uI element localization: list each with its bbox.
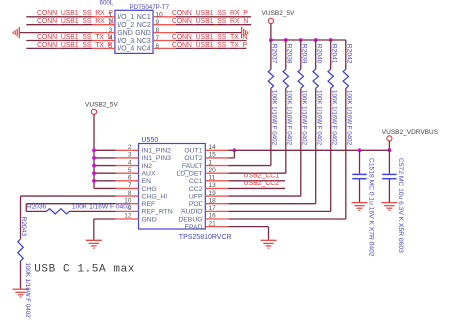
wire R2036 left (26, 210, 46, 212)
svg-text:1: 1 (209, 159, 213, 166)
earth ground (left of choke) (13, 27, 19, 38)
common-mode choke body PDT5047P (115, 10, 153, 53)
capacitor C572 plates (382, 174, 396, 178)
wire R2036 right (69, 210, 115, 212)
wire R2042 bottom (345, 88, 347, 219)
U550 pin 18 stub (205, 203, 228, 205)
pin 4 stub (92, 40, 115, 42)
wire net CONN_USB1_SS_RX_P (right) (176, 16, 251, 18)
svg-text:USB C 1.5A max: USB C 1.5A max (34, 264, 135, 276)
svg-text:600L: 600L (100, 0, 114, 6)
svg-text:R2039: R2039 (301, 44, 308, 64)
U550 pin 8 stub (116, 195, 139, 197)
svg-text:7: 7 (156, 35, 160, 42)
svg-text:CONN_USB1_SS_TX_N: CONN_USB1_SS_TX_N (172, 34, 248, 41)
svg-text:USB2_CC2: USB2_CC2 (244, 180, 280, 187)
pin 10 stub (153, 16, 176, 18)
svg-text:IN1_PIN3: IN1_PIN3 (142, 155, 172, 162)
svg-text:C572 MC 10u 6.3V K X5R 0603: C572 MC 10u 6.3V K X5R 0603 (397, 158, 404, 253)
capacitor C1518 plates (352, 174, 366, 178)
svg-text:CONN_USB1_SS_TX_P: CONN_USB1_SS_TX_P (37, 42, 113, 49)
svg-text:IN1_PIN2: IN1_PIN2 (142, 148, 172, 155)
wire R2039 bottom (300, 88, 302, 196)
wire AUDIO to R2041 (228, 210, 330, 212)
wire R2040 bottom (315, 88, 317, 203)
svg-text:6: 6 (156, 43, 160, 50)
wire EPAD (228, 226, 268, 228)
U550 pin 14 stub (205, 149, 228, 151)
wire R2038 bottom (285, 88, 287, 173)
svg-text:LD_DET: LD_DET (176, 170, 202, 177)
U550 pin 17 stub (205, 210, 228, 212)
U550 pin 6 stub (116, 180, 139, 182)
pin 6 stub (153, 47, 176, 49)
svg-text:AUDIO: AUDIO (181, 209, 203, 216)
svg-text:15: 15 (209, 152, 217, 159)
wire OUT2 stub (228, 157, 234, 159)
pin 5 stub (92, 47, 115, 49)
wire POL to R2040 (228, 203, 315, 205)
junction VDRVBUS (388, 148, 392, 152)
wire REF down to R2036 (25, 204, 27, 212)
svg-text:GND: GND (142, 216, 157, 223)
wire R2038 top (285, 40, 287, 69)
svg-text:18: 18 (209, 197, 217, 204)
resistor R2039 (298, 69, 303, 88)
svg-text:19: 19 (209, 190, 217, 197)
svg-text:100K 1/16W F 0402: 100K 1/16W F 0402 (316, 90, 323, 146)
svg-text:16: 16 (209, 213, 217, 220)
wire DEBUG to R2042 (228, 218, 345, 220)
svg-text:10: 10 (156, 11, 164, 18)
svg-text:AUX: AUX (142, 170, 156, 177)
wire R2041 bottom (330, 88, 332, 211)
svg-text:8: 8 (156, 27, 160, 34)
svg-text:CC2: CC2 (189, 186, 203, 193)
svg-text:GND: GND (135, 30, 151, 37)
resistor R2042 (343, 69, 348, 88)
U550 pin 10 stub (116, 203, 139, 205)
svg-text:5: 5 (128, 167, 132, 174)
wire net CONN_USB1_SS_TX_P (left) (26, 47, 92, 49)
svg-text:I/O_2: I/O_2 (117, 22, 134, 29)
svg-text:14: 14 (209, 144, 217, 151)
svg-text:NC3: NC3 (137, 38, 151, 45)
svg-text:R2042: R2042 (346, 44, 353, 64)
svg-text:CHG: CHG (142, 186, 157, 193)
U550 pin 12 stub (116, 218, 139, 220)
wire 5V to pin 5 (94, 172, 116, 174)
svg-text:OUT2: OUT2 (184, 155, 202, 162)
power symbol VUSB2_VDRVBUS (387, 136, 392, 141)
U550 pin 1 stub (205, 165, 228, 167)
svg-text:100K 1/16W F 0402: 100K 1/16W F 0402 (301, 90, 308, 146)
U550 pin 2 stub (116, 149, 139, 151)
svg-text:VUSB2_VDRVBUS: VUSB2_VDRVBUS (382, 129, 439, 136)
wire C1518 bottom (359, 180, 361, 203)
svg-text:NC1: NC1 (137, 14, 151, 21)
svg-text:VUSB2_5V: VUSB2_5V (262, 10, 296, 17)
wire C1518 top (359, 150, 361, 173)
junction 5V rail row 3 (92, 156, 96, 160)
svg-text:NC2: NC2 (137, 22, 151, 29)
U550 pin 11 stub (205, 180, 228, 182)
svg-text:20: 20 (209, 167, 217, 174)
svg-text:CHG_HI: CHG_HI (142, 193, 168, 200)
wire net CONN_USB1_SS_RX_P (left) (26, 16, 92, 18)
U550 pin 20 stub (205, 172, 228, 174)
wire UFP to R2039 (228, 195, 300, 197)
svg-text:TPS25810RVCR: TPS25810RVCR (179, 234, 232, 241)
U550 pin 4 stub (116, 165, 139, 167)
svg-text:100K 1/16W F 0402: 100K 1/16W F 0402 (346, 90, 353, 146)
svg-text:CONN_USB1_SS_RX_N: CONN_USB1_SS_RX_N (172, 18, 248, 25)
resistor R2036 (47, 209, 70, 214)
pin 7 stub (153, 40, 176, 42)
wire gnd row 3 (left) (19, 32, 92, 34)
wire LD_DET to R2038 (228, 172, 285, 174)
U550 pin 3 stub (116, 157, 139, 159)
svg-text:CC1: CC1 (189, 178, 203, 185)
junction 5V rail row 2 (92, 148, 96, 152)
ground under C572 (381, 203, 397, 211)
wire net CONN_USB1_SS_TX_P (right) (176, 47, 247, 49)
wire R2037 bottom (270, 88, 272, 165)
svg-text:CONN_USB1_SS_RX_P: CONN_USB1_SS_RX_P (172, 10, 248, 17)
svg-text:R2037: R2037 (271, 44, 278, 64)
resistor R2041 (328, 69, 333, 88)
wire R2039 top (300, 40, 302, 69)
wire CHG_HI row (21, 195, 116, 197)
svg-text:9: 9 (156, 19, 160, 26)
svg-text:EN: EN (142, 178, 152, 185)
svg-text:7: 7 (128, 182, 132, 189)
svg-text:CONN_USB1_SS_TX_P: CONN_USB1_SS_TX_P (172, 42, 248, 49)
svg-text:R2038: R2038 (286, 44, 293, 64)
U550 pin 7 stub (116, 187, 139, 189)
U550 pin 15 stub (205, 157, 228, 159)
ground under pin 12 (86, 240, 102, 248)
svg-text:4: 4 (128, 159, 132, 166)
resistor R2043 (18, 239, 23, 261)
svg-text:21: 21 (209, 220, 217, 227)
wire CC1 stub (228, 180, 285, 182)
U550 pin 19 stub (205, 195, 228, 197)
svg-text:NC4: NC4 (137, 46, 151, 53)
resistor R2037 (268, 69, 273, 88)
wire 5V to pin 2 (94, 149, 116, 151)
svg-text:I/O_4: I/O_4 (117, 46, 134, 53)
junction on 5V rail at R2039 (299, 38, 303, 42)
svg-text:I/O_3: I/O_3 (117, 38, 134, 45)
wire VDRVBUS down to rail (388, 141, 390, 150)
svg-text:13: 13 (209, 182, 217, 189)
svg-text:POL: POL (189, 201, 203, 208)
svg-text:GND: GND (117, 30, 133, 37)
junction OUT2 join (233, 148, 237, 152)
U550 pin 16 stub (205, 218, 228, 220)
wire 5V to pin 6 (94, 180, 116, 182)
svg-text:8: 8 (128, 190, 132, 197)
svg-text:IN2: IN2 (142, 163, 153, 170)
wire down to R2043 (20, 196, 22, 239)
ground under C1518 (352, 203, 368, 211)
pin 9 stub (153, 24, 176, 26)
wire 5V to pin 7 (CHG) (94, 187, 116, 189)
junction 5V rail row 6 (92, 179, 96, 183)
junction on 5V rail at R2037 (269, 38, 273, 42)
svg-text:CONN_USB1_SS_RX_N: CONN_USB1_SS_RX_N (37, 18, 113, 25)
svg-text:C1518 MC 0.1u 16V K X7R 0402: C1518 MC 0.1u 16V K X7R 0402 (367, 158, 374, 257)
pin 8 stub (153, 32, 176, 34)
svg-text:UFP: UFP (189, 193, 203, 200)
wire 5V to pin 4 (94, 165, 116, 167)
wire REF row (pin 10) (26, 203, 115, 205)
wire net CONN_USB1_SS_TX_N (right) (176, 40, 247, 42)
earth ground (right of choke) (242, 27, 248, 38)
U550 pin 21 stub (205, 226, 228, 228)
svg-text:OUT1: OUT1 (184, 148, 202, 155)
svg-text:USB2_CC1: USB2_CC1 (244, 173, 280, 180)
wire GND pin 12 (94, 218, 116, 220)
pin 2 stub (92, 24, 115, 26)
wire 5V rail left vertical (93, 114, 95, 188)
junction 5V rail row 4 (92, 164, 96, 168)
ground under EPAD (261, 240, 277, 248)
svg-text:11: 11 (209, 175, 216, 182)
svg-text:17: 17 (209, 205, 217, 212)
junction 5V rail row 5 (92, 171, 96, 175)
wire 5V to pin 3 (94, 157, 116, 159)
wire GND down (93, 219, 95, 240)
resistor R2040 (313, 69, 318, 88)
resistor R2038 (283, 69, 288, 88)
svg-text:12: 12 (124, 213, 132, 220)
svg-text:100K 1/16W F 0402: 100K 1/16W F 0402 (271, 90, 278, 146)
wire FAULT to R2037 (228, 165, 271, 167)
svg-text:6: 6 (128, 175, 132, 182)
svg-text:I/O_1: I/O_1 (117, 14, 134, 21)
svg-text:FAULT: FAULT (182, 163, 203, 170)
svg-text:VUSB2_5V: VUSB2_5V (85, 101, 119, 108)
wire OUT2 riser (233, 150, 235, 158)
U550 pin 5 stub (116, 172, 139, 174)
svg-text:100K 1/16W F 0402: 100K 1/16W F 0402 (24, 263, 31, 319)
wire from VUSB2_5V down (270, 24, 272, 41)
wire OUT1/VDRVBUS (228, 149, 389, 151)
wire EPAD down (268, 227, 270, 240)
junction C1518 (358, 148, 362, 152)
svg-text:3: 3 (128, 152, 132, 159)
svg-text:R2040: R2040 (316, 44, 323, 64)
junction on 5V rail at R2038 (284, 38, 288, 42)
junction on 5V rail at R2040 (314, 38, 318, 42)
wire net CONN_USB1_SS_RX_N (right) (176, 24, 251, 26)
svg-text:DEBUG: DEBUG (178, 216, 202, 223)
ground under R2043 (13, 289, 29, 297)
svg-text:U550: U550 (142, 137, 159, 144)
wire gnd row 8 (right) (176, 32, 241, 34)
svg-text:2: 2 (128, 144, 132, 151)
wire R2037 top (270, 40, 272, 69)
svg-text:R2043: R2043 (20, 217, 27, 237)
svg-text:EPAD: EPAD (184, 224, 202, 231)
svg-text:R2041: R2041 (331, 44, 338, 64)
svg-text:CONN_USB1_SS_TX_N: CONN_USB1_SS_TX_N (37, 34, 113, 41)
IC U550 body (139, 144, 206, 230)
wire CC2 stub (228, 187, 285, 189)
svg-text:REF_RTN: REF_RTN (142, 209, 173, 216)
wire C572 top (388, 150, 390, 173)
junction on 5V rail at R2041 (329, 38, 333, 42)
svg-text:REF: REF (142, 201, 156, 208)
wire R2042 top (345, 40, 347, 69)
svg-text:100K 1/16W F 0402: 100K 1/16W F 0402 (72, 203, 131, 210)
svg-text:R2036: R2036 (27, 203, 47, 210)
pin 3 stub (92, 32, 115, 34)
wire net CONN_USB1_SS_RX_N (left) (26, 24, 92, 26)
svg-text:CONN_USB1_SS_RX_P: CONN_USB1_SS_RX_P (37, 10, 113, 17)
wire R2043 to gnd (20, 261, 22, 289)
svg-text:100K 1/16W F 0402: 100K 1/16W F 0402 (286, 90, 293, 146)
power symbol VUSB2_5V (top) (268, 18, 273, 23)
wire net CONN_USB1_SS_TX_N (left) (26, 40, 92, 42)
svg-text:100K 1/16W F 0402: 100K 1/16W F 0402 (331, 90, 338, 146)
wire R2041 top (330, 40, 332, 69)
wire C572 bottom (388, 180, 390, 203)
U550 pin 9 stub (116, 210, 139, 212)
wire 5V rail (271, 39, 346, 41)
power symbol VUSB2_5V (left) (91, 109, 96, 114)
U550 pin 13 stub (205, 187, 228, 189)
pin 1 stub (92, 16, 115, 18)
wire R2040 top (315, 40, 317, 69)
